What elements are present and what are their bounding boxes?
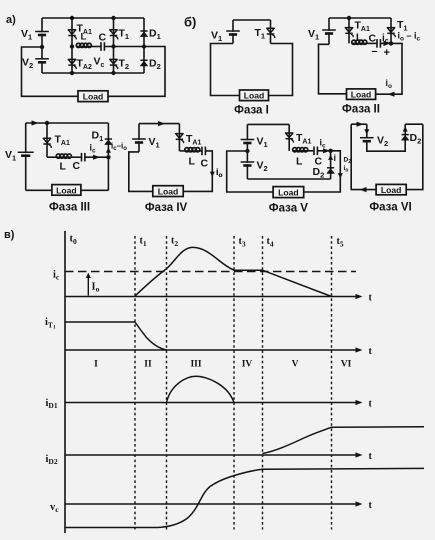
Load box phase I xyxy=(240,90,269,101)
wire L-C phase III xyxy=(71,156,81,158)
wire left loop phase IV xyxy=(129,152,153,192)
axis iD2 xyxy=(65,451,373,462)
thyristor TA1 xyxy=(68,30,76,40)
svg-text:t5: t5 xyxy=(337,236,344,249)
svg-text:IV: IV xyxy=(242,360,253,370)
svg-text:Io: Io xyxy=(92,282,100,294)
Load box phase III xyxy=(52,185,81,196)
svg-text:i: i xyxy=(334,153,337,163)
wire top rail right phase VI xyxy=(405,123,423,125)
svg-text:L: L xyxy=(81,32,87,43)
svg-text:t4: t4 xyxy=(267,236,274,249)
svg-text:ic: ic xyxy=(53,270,60,282)
wire C to junction phase V xyxy=(317,150,330,152)
arrow down V2 phase VI xyxy=(364,129,369,134)
svg-text:t1: t1 xyxy=(140,236,147,249)
wire D2 column xyxy=(143,47,145,74)
svg-text:VI: VI xyxy=(341,360,352,370)
wire left loop phase II xyxy=(319,44,347,94)
wire left loop phase I xyxy=(211,44,240,96)
capacitor C phase IV xyxy=(202,147,205,156)
thyristor TA2 xyxy=(68,59,76,69)
wire battery column V1 xyxy=(41,18,43,47)
svg-text:C: C xyxy=(201,158,209,170)
Load box phase V xyxy=(273,187,304,198)
svg-text:в): в) xyxy=(4,229,15,241)
thyristor TA1 phase II xyxy=(345,28,353,38)
svg-text:II: II xyxy=(144,360,152,370)
svg-text:t: t xyxy=(369,399,373,410)
inductor L phase III xyxy=(56,154,71,158)
battery V1 phase II xyxy=(322,30,336,34)
thyristor T1 phase II xyxy=(387,28,395,38)
waveform iT1 level xyxy=(65,321,135,323)
wire V2 column phase V xyxy=(246,151,248,179)
svg-text:V2: V2 xyxy=(22,57,33,71)
wire arrow ic phase II xyxy=(380,42,389,44)
arrow top rail phase III xyxy=(32,120,39,125)
wire V2 bottom to D2 phase VI xyxy=(367,124,405,151)
svg-text:t3: t3 xyxy=(239,236,246,249)
inductor L circuit a xyxy=(76,43,91,47)
svg-text:D1: D1 xyxy=(92,130,104,144)
arrow top rail phase VI xyxy=(357,122,364,127)
wire left column phase III xyxy=(25,123,27,190)
svg-text:V2: V2 xyxy=(257,160,268,174)
dashed line t3 xyxy=(233,236,235,530)
wire right loop phase I xyxy=(269,44,293,96)
Load box phase II xyxy=(347,89,376,100)
node T2 bottom xyxy=(111,71,115,75)
dashed line t2 xyxy=(166,236,168,530)
svg-text:ic: ic xyxy=(320,138,327,150)
arrow ic phase V xyxy=(323,148,330,153)
arrow io phase II xyxy=(388,92,395,97)
wire top rail phase II xyxy=(329,17,391,19)
svg-text:ic: ic xyxy=(90,143,97,155)
wire V1 column phase II xyxy=(328,18,330,44)
wire L to C phase II xyxy=(367,42,377,44)
arrow I0 xyxy=(86,273,91,296)
Load box phase VI xyxy=(376,184,406,195)
svg-text:D2: D2 xyxy=(149,58,161,72)
dashed line t5 xyxy=(331,236,333,530)
battery V2 phase VI xyxy=(360,138,374,142)
arrow io phase IV xyxy=(210,172,215,177)
wire top rail phase III xyxy=(26,122,109,124)
axis ic xyxy=(65,293,373,304)
svg-text:t: t xyxy=(369,293,373,304)
svg-text:TA1: TA1 xyxy=(186,133,201,147)
svg-text:Load: Load xyxy=(278,188,299,198)
wire left loop phase V xyxy=(227,151,273,192)
battery V1 phase V xyxy=(241,140,255,144)
svg-text:III: III xyxy=(190,360,201,370)
wire TA1 column phase III xyxy=(46,123,48,157)
wire right loop phase IV xyxy=(183,151,212,192)
svg-text:Load: Load xyxy=(83,92,104,102)
arrow top rail phase IV xyxy=(158,121,165,126)
wire V1 column phase IV xyxy=(138,124,140,152)
svg-text:V2: V2 xyxy=(377,135,388,149)
svg-text:TA2: TA2 xyxy=(77,58,92,72)
arrow ic phase II xyxy=(384,41,391,46)
wire TA1 to L phase IV xyxy=(179,150,184,152)
wire C to T column xyxy=(104,46,144,48)
svg-text:iD1: iD1 xyxy=(46,398,58,410)
arrow down right phase V xyxy=(338,173,343,178)
capacitor C phase II xyxy=(377,39,380,48)
axis vertical xyxy=(64,231,66,533)
svg-text:io – ic: io – ic xyxy=(398,31,421,43)
node T1 bottom xyxy=(111,44,115,48)
svg-text:V1: V1 xyxy=(211,30,222,44)
wire T1 column phase I xyxy=(270,20,272,44)
capacitor C phase III xyxy=(82,153,85,162)
wire battery column V2 xyxy=(41,47,43,73)
svg-text:Load: Load xyxy=(158,187,179,197)
svg-text:I: I xyxy=(94,360,98,370)
battery V1 xyxy=(35,32,49,36)
wire top rail phase V xyxy=(247,123,289,125)
wire T2 column xyxy=(113,47,115,74)
waveform ic xyxy=(135,247,332,296)
svg-text:TA1: TA1 xyxy=(55,134,70,148)
svg-text:L: L xyxy=(189,156,196,168)
svg-text:D2: D2 xyxy=(344,157,352,166)
capacitor C circuit a xyxy=(101,42,104,51)
thyristor TA1 phase V xyxy=(286,133,294,143)
node TA2 bottom xyxy=(70,71,74,75)
svg-text:L: L xyxy=(60,161,67,173)
wire TA1 column xyxy=(71,18,73,47)
svg-text:C: C xyxy=(73,160,81,172)
Load box circuit a xyxy=(78,91,108,102)
waveform iD2 xyxy=(263,427,425,454)
svg-text:V1: V1 xyxy=(149,136,160,150)
svg-text:iD2: iD2 xyxy=(46,454,58,466)
svg-text:D1: D1 xyxy=(149,28,161,42)
svg-text:vc: vc xyxy=(50,502,59,514)
Load box phase IV xyxy=(153,186,183,197)
node junction V1-V2 xyxy=(40,45,44,49)
svg-text:Фаза I: Фаза I xyxy=(234,105,269,117)
wire V1 column phase V xyxy=(246,124,248,151)
svg-text:iT1: iT1 xyxy=(45,317,56,331)
svg-text:Load: Load xyxy=(56,185,77,195)
svg-text:t: t xyxy=(369,451,373,462)
svg-text:V1: V1 xyxy=(5,149,16,163)
svg-text:t: t xyxy=(369,346,373,357)
inductor L phase V xyxy=(292,148,307,152)
waveform vc xyxy=(65,468,424,527)
diode D2 xyxy=(140,60,147,66)
svg-text:T1: T1 xyxy=(119,28,130,42)
waveform iT1 decay xyxy=(135,322,167,350)
node V1-V2 phase V xyxy=(245,149,249,153)
wire L-C phase V xyxy=(308,150,314,152)
svg-text:Vc: Vc xyxy=(94,56,105,70)
arrow left load phase VI xyxy=(360,187,367,192)
svg-text:a): a) xyxy=(6,14,16,26)
node TA mid xyxy=(70,44,74,48)
diode D2 phase V xyxy=(327,168,334,174)
svg-text:TA1: TA1 xyxy=(296,132,311,146)
battery V1 phase III xyxy=(18,152,34,155)
wire D1 column xyxy=(143,18,145,47)
thyristor T2 xyxy=(110,59,118,69)
svg-text:Load: Load xyxy=(351,90,372,100)
dashed I0 level xyxy=(65,271,356,273)
svg-text:Load: Load xyxy=(244,91,265,101)
wire TA1 column phase IV xyxy=(178,124,180,151)
svg-text:V: V xyxy=(292,360,299,370)
axis iT1 xyxy=(65,346,373,357)
node top rail phase II xyxy=(347,16,351,20)
svg-text:io: io xyxy=(344,165,349,174)
wire D2 branch phase V xyxy=(330,151,332,179)
node TA1 top xyxy=(70,16,74,20)
wire V1 column phase I xyxy=(232,20,234,44)
svg-text:Фаза II: Фаза II xyxy=(342,104,380,116)
wire top rail circuit a xyxy=(42,17,144,19)
wire T1 column xyxy=(113,18,115,47)
wire top rail phase IV xyxy=(139,123,179,125)
node D1 bottom phase III xyxy=(106,155,110,159)
svg-text:t2: t2 xyxy=(171,236,178,249)
wire right outer circuit a xyxy=(108,47,165,97)
svg-text:Фаза III: Фаза III xyxy=(49,202,90,214)
wire top rail left phase VI xyxy=(351,123,367,125)
svg-text:t0: t0 xyxy=(70,234,78,247)
wire left outer circuit a xyxy=(22,47,79,96)
svg-text:Фаза VI: Фаза VI xyxy=(369,202,411,214)
svg-text:+: + xyxy=(384,47,390,59)
arrow ic phase III xyxy=(93,155,100,160)
node phase II junction xyxy=(389,41,393,45)
svg-text:io: io xyxy=(386,78,393,90)
wire V2 to D2 bottom phase V xyxy=(247,178,330,180)
svg-text:Фаза IV: Фаза IV xyxy=(145,202,188,214)
svg-text:Фаза V: Фаза V xyxy=(269,203,309,215)
svg-text:io: io xyxy=(216,167,223,179)
wire L to C xyxy=(91,46,101,48)
svg-text:б): б) xyxy=(184,15,196,30)
wire L-C phase IV xyxy=(200,150,202,152)
wire T1 column phase II xyxy=(390,18,392,43)
svg-text:V1: V1 xyxy=(21,28,32,42)
svg-text:TA1: TA1 xyxy=(355,20,370,34)
svg-text:D2: D2 xyxy=(313,166,325,180)
dashed line t1 xyxy=(134,236,136,530)
svg-text:T2: T2 xyxy=(119,58,130,72)
svg-text:–: – xyxy=(372,46,378,58)
thyristor TA1 phase III xyxy=(43,138,51,148)
axis iD1 xyxy=(65,399,373,410)
svg-text:C: C xyxy=(99,31,107,43)
node T1 top xyxy=(111,16,115,20)
arrow i up phase V xyxy=(328,155,333,160)
diode D1 xyxy=(140,31,147,37)
wire TA1 column phase V xyxy=(288,124,290,150)
wire rail phase III xyxy=(47,156,56,158)
dashed line t4 xyxy=(262,236,264,530)
wire bottom left phase VI xyxy=(351,124,376,189)
node TA1 top phase III xyxy=(45,121,49,125)
wire right loop phase V xyxy=(304,151,341,192)
wire V2 column phase VI xyxy=(366,124,368,138)
wire right loop phase II xyxy=(376,43,402,94)
svg-text:D2: D2 xyxy=(410,132,422,146)
wire bottom right phase III xyxy=(81,189,109,191)
battery V2 phase V xyxy=(241,162,255,166)
svg-text:t: t xyxy=(369,500,373,511)
svg-text:V1: V1 xyxy=(308,28,319,42)
capacitor C phase V xyxy=(314,147,317,156)
wire bottom left phase III xyxy=(26,189,52,191)
battery V2 xyxy=(35,59,49,63)
svg-text:ic–io: ic–io xyxy=(111,142,127,153)
wire D1 column phase III xyxy=(107,123,109,190)
svg-text:V1: V1 xyxy=(257,136,268,150)
wire right column phase VI xyxy=(406,124,423,189)
arrow up D1 phase III xyxy=(106,147,111,152)
wire bottom rail circuit a xyxy=(42,72,144,74)
inductor L phase IV xyxy=(185,148,200,152)
diode D1 phase III xyxy=(105,139,112,145)
inductor L phase II xyxy=(352,40,367,44)
thyristor T1 xyxy=(110,30,118,40)
thyristor T1 phase I xyxy=(267,28,275,38)
node D1 bottom xyxy=(142,44,146,48)
diode D2 phase VI xyxy=(402,135,409,141)
node junction phase V xyxy=(328,149,332,153)
svg-text:Load: Load xyxy=(381,185,402,195)
battery V1 phase I xyxy=(226,31,240,35)
wire TA2 column xyxy=(71,47,73,74)
wire top rail phase I xyxy=(233,19,271,21)
wire TA1 column phase II xyxy=(348,18,350,43)
battery V1 phase IV xyxy=(132,139,146,143)
axis vc xyxy=(65,500,373,511)
wire C to D1 phase III xyxy=(85,156,109,158)
thyristor TA1 phase IV xyxy=(176,134,184,144)
svg-text:L: L xyxy=(296,156,303,168)
svg-text:T1: T1 xyxy=(255,27,266,41)
arrow up D2 phase VI xyxy=(403,126,408,131)
waveform iD1 xyxy=(167,376,235,402)
